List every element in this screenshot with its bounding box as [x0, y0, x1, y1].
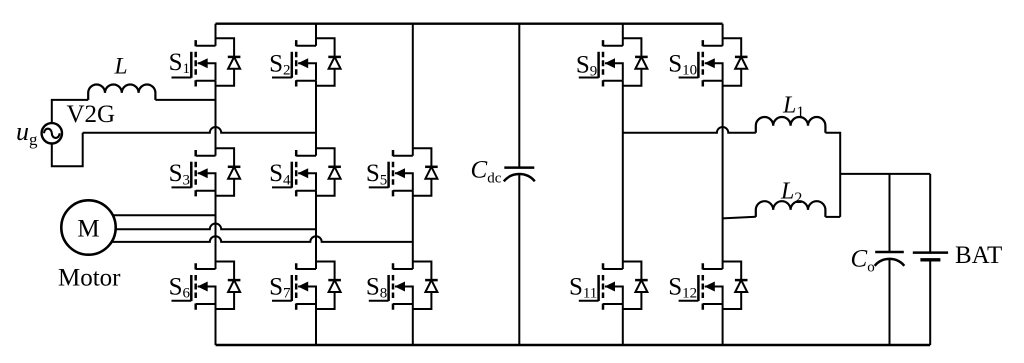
- svg-text:ug: ug: [16, 117, 38, 149]
- body diode of S5: [413, 148, 438, 196]
- svg-text:Co: Co: [851, 246, 875, 276]
- wire leg3 top: [412, 24, 414, 156]
- body diode of S7: [316, 262, 341, 310]
- wire leg2 lower: [315, 191, 317, 269]
- wire leg1 top: [215, 24, 217, 46]
- body diode of S10: [723, 38, 748, 86]
- wire leg4 mid: [622, 81, 624, 269]
- svg-text:L2: L2: [780, 179, 802, 208]
- svg-text:L: L: [114, 54, 128, 80]
- transistor S1: [172, 40, 216, 86]
- wire output node: [840, 173, 930, 175]
- wire leg2 bottom: [315, 304, 317, 345]
- wire leg3 bottom: [412, 304, 414, 345]
- svg-text:S9: S9: [576, 51, 597, 79]
- body diode of S11: [623, 262, 648, 310]
- inductor L2: [756, 201, 826, 217]
- svg-text:S3: S3: [169, 160, 190, 188]
- body diode of S2: [316, 38, 341, 86]
- wire leg5 mid: [722, 81, 724, 269]
- transistor S6: [172, 263, 216, 309]
- ac source ug: [42, 123, 62, 143]
- svg-text:S12: S12: [668, 274, 697, 302]
- transistor S8: [369, 263, 413, 309]
- wire bottom DC bus: [216, 344, 931, 346]
- transistor S12: [679, 263, 723, 309]
- wire leg3 lower: [412, 191, 414, 269]
- wire leg4 node to L1 (hops leg5): [623, 127, 756, 133]
- capacitor Co: [875, 174, 905, 345]
- transistor S4: [272, 150, 316, 196]
- wire L to leg1: [155, 99, 215, 101]
- wire motor phase c (hops leg1, leg2): [100, 236, 413, 242]
- svg-text:M: M: [77, 216, 99, 243]
- svg-text:S1: S1: [169, 49, 190, 77]
- wire L1 out: [825, 133, 840, 217]
- transistor S11: [579, 263, 623, 309]
- body diode of S3: [216, 148, 241, 196]
- inductor L: [88, 85, 155, 100]
- wire leg4 top: [622, 24, 624, 46]
- svg-text:V2G: V2G: [67, 101, 116, 128]
- transistor S9: [579, 40, 623, 86]
- svg-text:S4: S4: [269, 160, 291, 188]
- svg-text:S11: S11: [569, 274, 597, 302]
- svg-text:L1: L1: [782, 93, 804, 122]
- wire return to leg2 (hops leg1): [83, 127, 316, 133]
- wire leg5 top: [722, 24, 724, 46]
- wire grid return: [52, 133, 83, 167]
- transistor S10: [679, 40, 723, 86]
- svg-text:Cdc: Cdc: [471, 157, 502, 187]
- wire grid live: [52, 100, 88, 124]
- wire motor phase a: [100, 214, 216, 216]
- body diode of S8: [413, 262, 438, 310]
- transistor S3: [172, 150, 216, 196]
- transistor S7: [272, 263, 316, 309]
- wire leg2 top: [315, 24, 317, 46]
- battery BAT: [913, 174, 948, 345]
- svg-text:Motor: Motor: [58, 265, 121, 292]
- wire top DC bus: [216, 23, 723, 25]
- wire leg5 bottom: [722, 304, 724, 345]
- wire L2 out: [825, 216, 840, 218]
- inductor L1: [756, 117, 826, 133]
- svg-text:S5: S5: [366, 160, 387, 188]
- body diode of S9: [623, 38, 648, 86]
- body diode of S1: [216, 38, 241, 86]
- svg-text:S8: S8: [366, 274, 387, 302]
- svg-text:S10: S10: [668, 50, 697, 78]
- svg-text:S6: S6: [169, 274, 191, 302]
- body diode of S6: [216, 262, 241, 310]
- body diode of S4: [316, 148, 341, 196]
- wire leg1 bottom: [215, 304, 217, 345]
- motor M: [61, 200, 115, 254]
- wire leg2 mid: [315, 81, 317, 156]
- wire leg1 mid: [215, 81, 217, 156]
- capacitor Cdc: [504, 24, 535, 345]
- svg-text:S2: S2: [269, 50, 290, 78]
- transistor S2: [272, 40, 316, 86]
- wire motor phase b (hops leg1): [100, 223, 316, 229]
- svg-text:S7: S7: [269, 274, 291, 302]
- svg-text:BAT: BAT: [955, 242, 1002, 269]
- wire leg4 bottom: [622, 304, 624, 345]
- body diode of S12: [723, 262, 748, 310]
- wire leg5 node to L2: [723, 217, 756, 219]
- wire leg1 lower: [215, 191, 217, 269]
- transistor S5: [369, 150, 413, 196]
